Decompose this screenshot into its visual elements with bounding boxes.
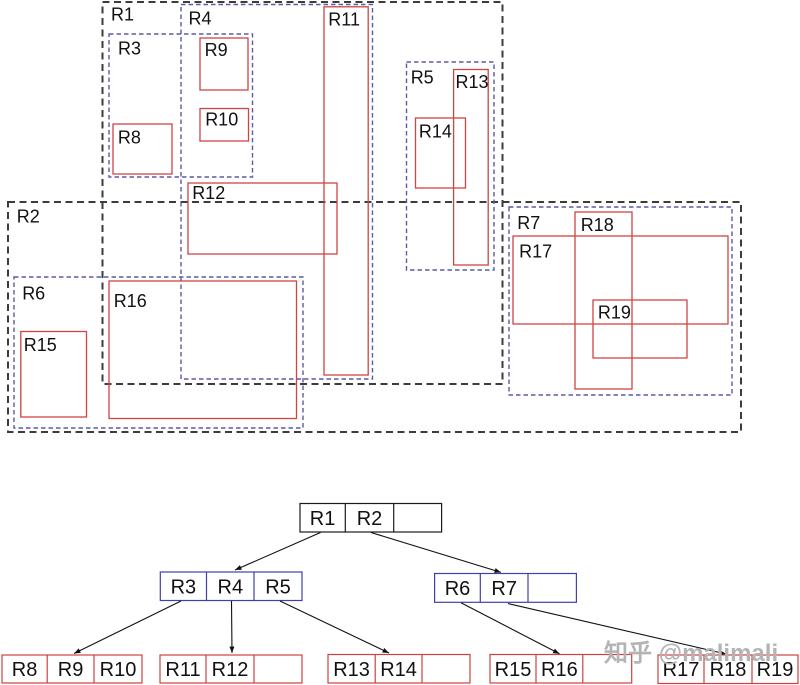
svg-text:R5: R5 [411,67,434,87]
svg-text:R8: R8 [12,659,38,681]
rect R1 (gray dashed) [103,2,503,384]
tree root node box [R1|R2| ] [300,504,442,533]
svg-text:R11: R11 [328,10,360,30]
svg-text:R16: R16 [541,659,578,681]
rect R3 (blue dashed) [109,34,253,177]
arrow R6 -> leaf R15R16 [461,603,560,654]
svg-text:R7: R7 [517,213,540,233]
svg-text:R14: R14 [380,659,417,681]
rect R6 (blue dashed) [14,277,303,428]
svg-text:R17: R17 [519,242,552,262]
svg-text:R6: R6 [22,284,45,304]
svg-text:R18: R18 [581,215,614,235]
svg-text:R7: R7 [491,578,517,600]
arrow R7 -> leaf R17R18R19 [508,604,726,655]
leaf node [R11|R12| ] [160,655,302,683]
svg-text:R15: R15 [24,335,57,355]
arrow R5 -> leaf R13R14 [280,601,389,653]
rect R12 (red) [188,183,337,254]
arrow R4 -> leaf R11R12 [231,601,234,653]
svg-text:R3: R3 [171,577,197,599]
svg-text:R19: R19 [598,302,631,322]
svg-text:R10: R10 [205,110,238,130]
svg-text:知乎 @malimali: 知乎 @malimali [604,640,778,667]
svg-text:R12: R12 [192,183,225,203]
leaf node [R17|R18|R19] [658,655,798,684]
svg-text:R9: R9 [205,40,228,60]
svg-text:R1: R1 [310,508,336,530]
svg-text:R9: R9 [58,659,84,681]
rect R9 (red) [200,38,248,90]
svg-text:R10: R10 [100,659,137,681]
svg-text:R6: R6 [445,578,471,600]
svg-text:R4: R4 [218,577,244,599]
leaf node [R8|R9|R10] [2,655,142,683]
leaf node [R15|R16| ] [490,655,632,684]
rect R4 (blue dashed) [181,5,373,380]
svg-text:R16: R16 [114,291,147,311]
svg-text:R8: R8 [118,128,141,148]
rect R19 (red) [593,300,687,358]
svg-text:R15: R15 [495,659,532,681]
svg-text:R4: R4 [189,9,212,29]
rect R7 (blue dashed) [509,207,732,395]
tree internal node [R6|R7| ] [435,574,577,603]
svg-text:R1: R1 [111,5,134,25]
rect R8 (red) [113,124,172,174]
arrow root R2 -> node R6R7 [371,533,501,573]
rect R13 (red) [454,70,489,266]
svg-text:R2: R2 [17,207,40,227]
tree internal node [R3|R4|R5] [160,572,302,601]
svg-text:R11: R11 [165,659,200,681]
rect R16 (red) [109,281,297,419]
rect R14 (red) [416,118,466,188]
leaf node [R13|R14| ] [328,655,470,684]
svg-text:R13: R13 [456,72,489,92]
rect R5 (blue dashed) [407,62,495,270]
svg-text:R14: R14 [419,122,452,142]
rect R15 (red) [21,332,87,418]
svg-text:R3: R3 [118,38,141,58]
arrow R3 -> leaf R8R9R10 [74,601,181,654]
rect R11 (red) [324,7,368,375]
arrow root R1 -> node R3R4R5 [235,533,321,571]
rect R18 (red) [575,212,632,389]
svg-text:R5: R5 [265,577,291,599]
rect R2 (gray dashed) [8,202,741,432]
svg-text:R13: R13 [333,659,370,681]
svg-text:R2: R2 [357,508,383,530]
rect R17 (red) [513,236,728,324]
svg-text:R12: R12 [212,659,249,681]
rect R10 (red) [200,109,249,142]
